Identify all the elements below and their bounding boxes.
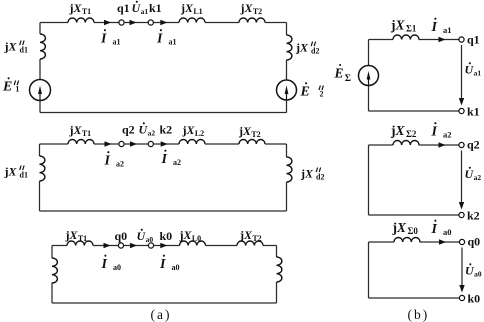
current arrow I_a0 b3 <box>439 239 446 244</box>
terminal q0 <box>459 239 464 244</box>
svg-text:k2: k2 <box>467 209 480 223</box>
wire row1 between T1 and q1 <box>94 22 119 24</box>
wire b1 top-left <box>369 39 394 41</box>
svg-text:q1: q1 <box>117 1 130 15</box>
wire row3 left lower <box>51 283 53 304</box>
current arrow I_a1 third <box>160 20 167 25</box>
wire row1 right upper <box>286 23 288 36</box>
source E''_1 <box>30 80 51 101</box>
label jX''_d2 row1 <box>295 41 319 56</box>
wire b2 top-left <box>369 144 394 146</box>
label I_a0 left <box>101 255 121 272</box>
current arrow I_a2 right <box>130 141 137 146</box>
wire row3 top-left segment <box>52 245 67 247</box>
wire row2 between q2 and k2 <box>124 143 148 145</box>
voltage arrowhead U_a0 <box>459 285 464 293</box>
wire b2 top-right <box>419 144 459 146</box>
current arrow I_a2 b2 <box>439 142 446 147</box>
svg-text:jX: jX <box>4 165 18 179</box>
inductor jX_T1 row3 <box>67 241 93 246</box>
terminal k1 <box>459 108 464 113</box>
svg-text:2: 2 <box>320 90 324 99</box>
label E''_2 <box>300 82 324 99</box>
node q1 <box>119 20 124 25</box>
inductor zero-seq left winding <box>52 258 57 283</box>
wire row3 between T1 and q0 <box>93 245 118 247</box>
current arrow I_a2 left <box>105 141 112 146</box>
inductor jX_T2 row1 <box>239 18 265 23</box>
label U_a0 row3 <box>137 229 154 244</box>
label U_a0 b3 <box>465 263 482 278</box>
label E_Sigma <box>334 64 351 84</box>
svg-text:E: E <box>300 85 310 100</box>
svg-text:(a): (a) <box>151 307 172 322</box>
voltage arrowhead U_a1 <box>459 98 464 106</box>
wire row1 left middle <box>39 59 41 80</box>
svg-text:k0: k0 <box>468 292 481 306</box>
wire row1 between L1 and T2 <box>205 22 239 24</box>
wire row3 right lower <box>276 282 278 303</box>
wire row1 right lower <box>286 100 288 113</box>
svg-text:d2: d2 <box>311 46 319 55</box>
voltage arrow line U_a0 <box>461 248 463 289</box>
wire row2 left lower <box>39 181 41 211</box>
label U_a1 b1 <box>465 62 482 77</box>
svg-text:(b): (b) <box>408 307 430 322</box>
voltage arrow line U_a1 <box>461 45 463 101</box>
wire row1 between k1 and L1 <box>154 22 179 24</box>
wire row1 left lower <box>39 101 41 113</box>
svg-text:E: E <box>2 80 12 95</box>
inductor jX''_d2 row1 <box>287 35 292 60</box>
inductor jX_Sigma0 <box>394 238 420 243</box>
inductor jX_Sigma1 <box>393 35 419 40</box>
svg-text:jX: jX <box>4 40 18 54</box>
svg-text:k1: k1 <box>467 105 480 119</box>
svg-text:1: 1 <box>15 85 19 94</box>
wire row3 between L0 and T2 <box>206 245 238 247</box>
terminal k2 <box>459 212 464 217</box>
svg-text:d1: d1 <box>20 170 28 179</box>
inductor jX''_d2 row2 <box>287 157 292 182</box>
wire row1 top-right segment <box>265 22 287 24</box>
label I_a2 b2 <box>431 122 452 139</box>
wire row2 between k2 and L2 <box>154 143 179 145</box>
wire b3 top-left <box>369 241 395 243</box>
wire b2 bottom <box>369 214 459 216</box>
terminal q2 <box>459 142 464 147</box>
wire row2 between T1 and q2 <box>94 143 119 145</box>
node q0 <box>118 243 123 248</box>
wire row2 top-left segment <box>40 143 69 145</box>
inductor jX_T2 row2 <box>239 140 265 145</box>
wire row1 left upper <box>39 23 41 35</box>
label I_a1 right <box>156 29 176 46</box>
current arrow I_a0 right <box>130 243 137 248</box>
current arrow I_a1 left <box>104 20 111 25</box>
wire row2 right upper <box>286 144 288 157</box>
wire row2 right lower <box>286 182 288 211</box>
svg-text:d2: d2 <box>316 172 324 181</box>
wire row1 between q1 and k1 <box>124 22 148 24</box>
current arrow I_a1 right <box>130 20 137 25</box>
wire b3 top-right <box>420 241 460 243</box>
inductor jX_T2 row3 <box>237 241 263 246</box>
source E_Sigma <box>359 66 379 86</box>
label U_a1 row1 <box>132 1 149 16</box>
wire row3 bottom <box>52 302 277 304</box>
label I_a0 b3 <box>431 220 452 237</box>
terminal k0 <box>459 295 464 300</box>
inductor jX_T1 row1 <box>68 18 94 23</box>
svg-text:k0: k0 <box>160 229 173 243</box>
wire row3 left upper <box>51 246 53 259</box>
voltage arrow line U_a2 <box>461 151 463 206</box>
inductor jX''_d1 row1 <box>40 34 45 59</box>
wire row1 bottom <box>40 112 287 114</box>
terminal q1 <box>459 37 464 42</box>
wire b3 bottom <box>369 297 460 299</box>
label U_a2 row2 <box>139 122 156 137</box>
wire row1 right middle <box>286 60 288 80</box>
label jX''_d1 row2 <box>4 165 28 180</box>
svg-text:q0: q0 <box>468 235 481 249</box>
wire row2 between L2 and T2 <box>205 143 239 145</box>
wire row3 right upper <box>276 246 278 258</box>
svg-text:E: E <box>334 66 344 81</box>
inductor jX_Sigma2 <box>393 141 419 146</box>
wire row2 bottom <box>40 210 287 212</box>
label I_a2 right <box>161 150 181 167</box>
svg-text:q0: q0 <box>115 229 128 243</box>
inductor jX_L1 <box>179 18 205 23</box>
svg-text:k2: k2 <box>160 123 173 137</box>
svg-text:k1: k1 <box>149 1 162 15</box>
label U_a2 b2 <box>465 167 482 182</box>
inductor jX_L0 <box>180 241 206 246</box>
svg-text:Σ: Σ <box>345 74 351 84</box>
inductor zero-seq right winding <box>277 257 282 282</box>
source E''_2 <box>277 80 297 100</box>
current arrow I_a1 b1 <box>439 37 446 42</box>
wire row3 between k0 and L0 <box>154 245 180 247</box>
label I_a1 b1 <box>431 18 452 35</box>
label E''_1 <box>2 77 19 94</box>
node k1 <box>148 20 153 25</box>
wire b1 top-right <box>419 39 459 41</box>
wire row2 left upper <box>39 144 41 156</box>
label I_a0 right <box>159 255 179 272</box>
wire b2 left <box>368 145 370 215</box>
wire row3 between q0 and k0 <box>124 245 148 247</box>
inductor jX_T1 row2 <box>68 140 94 145</box>
wire b1 left upper <box>368 40 370 66</box>
label jX''_d2 row2 <box>300 167 324 182</box>
label I_a2 left <box>104 151 124 168</box>
wire row2 top-right segment <box>265 143 287 145</box>
node k2 <box>148 141 153 146</box>
inductor jX_L2 <box>179 140 205 145</box>
label jX''_d1 row1 <box>4 40 28 55</box>
current arrow I_a0 third <box>160 243 167 248</box>
wire row1 top-left segment <box>40 22 68 24</box>
svg-text:q2: q2 <box>467 138 480 152</box>
svg-text:q1: q1 <box>467 33 480 47</box>
wire b3 left <box>368 242 370 298</box>
current arrow I_a2 third <box>161 141 168 146</box>
wire b1 left lower <box>368 86 370 112</box>
svg-text:q2: q2 <box>122 123 135 137</box>
inductor jX''_d1 row2 <box>40 156 45 181</box>
wire row3 top-right segment <box>263 245 277 247</box>
label I_a1 left <box>100 29 120 46</box>
node k0 <box>148 243 153 248</box>
svg-text:jX: jX <box>300 167 314 181</box>
current arrow I_a0 left <box>104 243 111 248</box>
voltage arrowhead U_a2 <box>459 202 464 210</box>
svg-text:jX: jX <box>295 41 309 55</box>
node q2 <box>119 141 124 146</box>
wire b1 bottom <box>369 110 459 112</box>
svg-text:d1: d1 <box>20 45 28 54</box>
